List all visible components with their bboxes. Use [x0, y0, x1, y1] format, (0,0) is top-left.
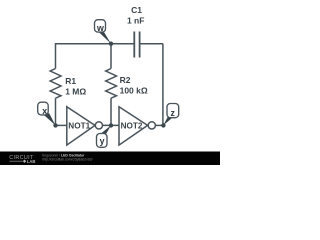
- resistor R2: [106, 69, 148, 99]
- svg-text:NOT2: NOT2: [121, 122, 143, 131]
- svg-text:R1: R1: [65, 76, 76, 86]
- node x: [38, 102, 56, 125]
- svg-text:100 kΩ: 100 kΩ: [120, 86, 148, 96]
- wire R2 vertical upper: [110, 44, 112, 69]
- svg-text:NOT1: NOT1: [68, 122, 90, 131]
- svg-text:R2: R2: [120, 75, 131, 85]
- wire NOT1 input: [56, 124, 67, 126]
- svg-text:x: x: [42, 106, 47, 116]
- wire NOT2 output: [155, 124, 163, 126]
- svg-text:http://circuitlab.com/c/5y8ab2: http://circuitlab.com/c/5y8ab2v93/: [42, 158, 92, 162]
- footer bar: [0, 152, 220, 166]
- wire top horizontal left of C1: [56, 43, 135, 45]
- wire left vertical upper: [55, 43, 57, 69]
- svg-text:z: z: [170, 108, 175, 118]
- svg-text:y: y: [100, 136, 105, 146]
- svg-text:w: w: [96, 23, 104, 33]
- op-amp NOT2: [119, 107, 155, 145]
- node y: [97, 125, 112, 147]
- svg-text:C1: C1: [131, 5, 142, 15]
- capacitor C1: [127, 5, 144, 58]
- wire NOT1 output to NOT2 input: [103, 124, 120, 126]
- node w: [95, 20, 112, 44]
- svg-text:1 nF: 1 nF: [127, 16, 144, 26]
- junction dot at z: [161, 123, 165, 127]
- wire top horizontal right of C1: [140, 43, 163, 45]
- svg-text:LAB: LAB: [27, 159, 36, 164]
- wire right vertical: [162, 44, 164, 126]
- op-amp NOT1: [67, 107, 103, 145]
- svg-text:1 MΩ: 1 MΩ: [65, 87, 86, 97]
- junction dot at w: [109, 42, 113, 46]
- footer CircuitLab logo: [9, 155, 35, 164]
- node z: [163, 104, 178, 126]
- resistor R1: [50, 69, 86, 99]
- wire left vertical lower: [55, 98, 57, 125]
- wire R2 vertical lower: [110, 98, 112, 125]
- junction dot at y: [109, 123, 113, 127]
- junction dot at x: [53, 123, 57, 127]
